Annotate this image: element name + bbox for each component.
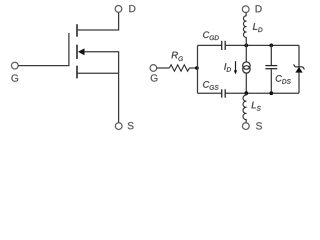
node drain top junction (244, 44, 248, 48)
label D (129, 5, 135, 12)
label CGD (203, 31, 219, 40)
label ID (224, 63, 231, 71)
wire resistor to gate node (189, 67, 197, 69)
channel segment top (76, 24, 78, 37)
wire drain rail to current source (245, 45, 247, 62)
wire gate lead (18, 33, 69, 66)
resistor RG (169, 65, 189, 71)
channel segment middle (76, 45, 78, 59)
wire bottom line to inductor LS (245, 93, 247, 95)
diode body diode (294, 64, 305, 72)
label G (11, 74, 18, 81)
inductor LD (243, 16, 246, 38)
wire top line left (198, 44, 222, 46)
wire bottom line right (225, 92, 299, 94)
node CDS bottom junction (269, 91, 273, 95)
wire G to resistor (157, 67, 170, 69)
capacitor CGD (222, 41, 226, 50)
label CDS (276, 75, 291, 84)
wire bottom line left (198, 92, 222, 94)
label S (128, 122, 134, 129)
wire current source to bottom line (245, 73, 247, 93)
wire inductor LS to terminal S (245, 119, 247, 123)
wire CDS top lead (270, 45, 272, 65)
node CDS top junction (269, 44, 273, 48)
wire CDS bottom lead (270, 69, 272, 93)
capacitor CGS (222, 89, 226, 98)
label RG (172, 52, 183, 61)
node source bottom junction (244, 91, 248, 95)
label S (256, 122, 262, 129)
wire body line (84, 52, 118, 74)
label CGS (203, 81, 218, 90)
label G (151, 74, 158, 81)
wire left rail (197, 45, 199, 93)
wire D to inductor (245, 12, 247, 16)
label D (256, 5, 262, 12)
node gate junction (195, 66, 199, 70)
wire source line (77, 73, 119, 123)
transistor Q1 MOSFET symbol (left) (11, 5, 135, 129)
wire top line right (225, 44, 299, 46)
wire right rail bottom (298, 72, 300, 93)
label LD (253, 23, 263, 32)
inductor LS (243, 95, 247, 119)
capacitor CDS (265, 66, 277, 69)
wire drain line (77, 12, 119, 30)
terminal D (left MOSFET) (115, 6, 122, 13)
label LS (252, 102, 261, 111)
terminal G (left MOSFET) (11, 62, 18, 69)
terminal D (right) (242, 6, 249, 13)
terminal S (right) (242, 123, 249, 130)
arrow ID direction (235, 61, 237, 71)
equivalent circuit (right) (150, 5, 304, 129)
current source ID (243, 62, 250, 73)
wire right rail top (298, 45, 300, 67)
terminal G (right) (150, 65, 157, 72)
channel segment bottom (76, 66, 78, 79)
wire inductor to top line (245, 37, 247, 45)
terminal S (left MOSFET) (115, 123, 122, 130)
body arrow (78, 48, 85, 55)
